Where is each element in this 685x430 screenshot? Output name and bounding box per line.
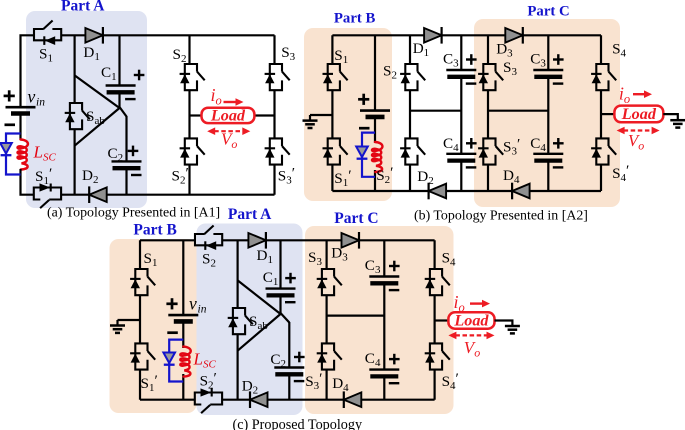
- wire b S1 column: [331, 35, 333, 191]
- wire b top rail 1: [332, 34, 424, 36]
- wire b S4 column: [600, 35, 602, 191]
- inductor LSC (c): [180, 347, 190, 377]
- ground (c right): [505, 326, 520, 333]
- load (b): [614, 105, 663, 123]
- wire c blue diode branch: [169, 340, 183, 382]
- svg-text:Part B: Part B: [133, 222, 176, 239]
- wire c battery column: [182, 240, 184, 399]
- wire b load wire: [601, 113, 614, 115]
- svg-text:D2: D2: [417, 168, 433, 187]
- region Part C (circuit c): [305, 226, 454, 414]
- wire c diagonal jog: [281, 313, 290, 323]
- wire c top rail 3: [266, 239, 342, 241]
- wire b S2 column: [409, 35, 411, 191]
- switch S4p (b): [591, 138, 616, 164]
- inductor LSC (b): [372, 142, 382, 172]
- wire a Sab column upper: [73, 35, 75, 103]
- capacitor C2 (a): [112, 146, 142, 175]
- inductor LSC (a): [18, 140, 28, 170]
- load (c): [448, 312, 494, 330]
- svg-text:Part B: Part B: [334, 11, 376, 27]
- switch S3 (b): [478, 64, 503, 90]
- switch S1p (a): [34, 183, 61, 208]
- wire b mid wire 2: [488, 110, 548, 112]
- load (a): [202, 106, 255, 124]
- capacitor C1 (c): [266, 273, 296, 302]
- switch S1p (c): [130, 343, 155, 369]
- wire a Sab column lower: [73, 129, 75, 195]
- switch S3p (c): [317, 343, 342, 369]
- ground (b right): [670, 120, 685, 127]
- wire c Sab column lower: [237, 334, 239, 400]
- wire a LSC to bottom: [21, 169, 34, 195]
- wire c diagonal upper: [238, 280, 281, 314]
- battery Vin (a): [4, 90, 36, 125]
- switch S3p (b): [478, 138, 503, 164]
- diode D3 (c): [342, 232, 360, 249]
- wire b C34a column: [460, 35, 462, 191]
- switch S2 (a): [180, 64, 205, 90]
- svg-text:in: in: [36, 97, 45, 109]
- switch S1 (c): [130, 269, 155, 295]
- wire c bottom rail 2: [222, 399, 250, 401]
- wire a diagonal upper: [75, 75, 120, 108]
- diode D2 (a): [89, 186, 107, 203]
- switch S2 (b): [400, 64, 425, 90]
- wire c bottom rail 4: [361, 399, 434, 401]
- wire c bottom rail 1: [140, 399, 195, 401]
- svg-text:(b) Topology Presented in [A2]: (b) Topology Presented in [A2]: [414, 209, 588, 224]
- wire a diagonal lower: [75, 108, 120, 146]
- label vo with dashed arrow (a): [207, 127, 250, 151]
- svg-text:Load: Load: [621, 105, 657, 123]
- label io with arrow (c): [454, 292, 491, 315]
- region Part A (circuit c): [197, 224, 303, 416]
- wire c right ground stem: [495, 321, 513, 327]
- wire c C2 column: [288, 322, 290, 400]
- wire a load right: [254, 114, 274, 116]
- capacitor C4 (b): [446, 138, 476, 167]
- svg-text:Part A: Part A: [61, 0, 105, 15]
- wire b bottom rail 3: [530, 190, 601, 192]
- svg-text:S4: S4: [442, 250, 456, 269]
- battery (b): [358, 94, 390, 129]
- svg-text:in: in: [198, 304, 207, 316]
- switch S4 (b): [591, 64, 616, 90]
- wire b top rail 2: [442, 34, 506, 36]
- svg-text:S2: S2: [383, 63, 397, 82]
- wire a C1 column: [118, 35, 120, 108]
- wire b bottom rail 2: [446, 190, 512, 192]
- wire c ground tap: [118, 320, 141, 326]
- wire a C2 column: [125, 116, 127, 195]
- wire c load wire: [435, 319, 449, 321]
- diode D1 (a): [85, 27, 103, 44]
- switch S2p (a): [180, 138, 205, 164]
- switch S2p (c): [195, 388, 222, 413]
- wire c bottom rail 3: [268, 399, 344, 401]
- wire a bottom rail left: [61, 194, 89, 196]
- capacitor C1 (a): [106, 70, 145, 99]
- switch S2 (c): [195, 226, 222, 251]
- region Part B (circuit b): [304, 28, 392, 201]
- svg-text:D1: D1: [413, 40, 429, 59]
- region Part B (circuit c): [110, 239, 197, 413]
- wire a top rail left: [61, 34, 85, 36]
- wire a top rail: [103, 34, 275, 36]
- svg-text:C4: C4: [443, 135, 459, 154]
- switch S4p (c): [425, 343, 450, 369]
- switch S1 (b): [323, 64, 348, 90]
- label vo with dashed arrow (b): [617, 127, 660, 153]
- wire a left rail: [21, 35, 35, 107]
- wire a S3 column: [273, 35, 275, 194]
- wire b mid wire 1: [410, 110, 461, 112]
- capacitor C4b (b): [533, 138, 563, 167]
- switch S3 (a): [265, 64, 290, 90]
- label io with arrow (b): [619, 84, 652, 107]
- diode D4 (b): [512, 183, 530, 200]
- wire b S3 column: [487, 35, 489, 191]
- svg-text:io: io: [619, 84, 630, 107]
- wire b C34b column: [547, 35, 549, 191]
- wire c diagonal lower: [238, 314, 281, 351]
- svg-text:C3: C3: [443, 51, 459, 70]
- wire c top rail 1: [140, 239, 195, 241]
- wire c S4 column: [434, 240, 436, 399]
- capacitor C4 (c): [369, 354, 399, 383]
- svg-text:S2′: S2′: [172, 165, 189, 187]
- diode D4 (c): [344, 391, 362, 408]
- svg-text:S3: S3: [281, 44, 295, 63]
- switch S1 (a): [34, 21, 61, 46]
- diode D1 (c): [248, 232, 266, 249]
- wire b battery column: [374, 35, 376, 191]
- region Part C (circuit b): [474, 19, 620, 207]
- wire c C34 column: [383, 240, 385, 399]
- svg-text:Vo: Vo: [628, 131, 644, 153]
- capacitor C3 (c): [369, 261, 399, 290]
- svg-text:Part A: Part A: [228, 206, 272, 223]
- wire c S3 column: [326, 240, 328, 399]
- svg-text:S4: S4: [612, 41, 626, 60]
- wire c Sab column upper: [237, 240, 239, 308]
- wire c mid wire: [327, 315, 385, 317]
- wire a S2 column: [188, 35, 190, 194]
- diode D2 (b): [429, 183, 447, 200]
- region Part A (circuit a): [26, 11, 147, 208]
- wire b blue diode branch: [362, 133, 375, 177]
- wire a battery to LSC node: [19, 113, 21, 140]
- wire a load left: [190, 114, 202, 116]
- ground (c left): [110, 326, 125, 333]
- ground (b left): [303, 121, 318, 128]
- svg-text:Part C: Part C: [527, 3, 569, 19]
- wire c C1 column: [279, 240, 281, 314]
- wire b right ground stem: [663, 114, 678, 120]
- switch S2p (b): [400, 138, 425, 164]
- wire a diagonal jog: [120, 107, 127, 117]
- svg-text:(c) Proposed Topology: (c) Proposed Topology: [233, 417, 363, 430]
- capacitor C3b (b): [533, 54, 563, 83]
- wire a blue diode branch: [6, 134, 21, 175]
- diode D3 (b): [505, 27, 523, 44]
- svg-text:v: v: [189, 294, 197, 314]
- switch Sab (c): [228, 308, 253, 334]
- diode blue snubber (c): [163, 353, 175, 365]
- label vo with dashed arrow (c): [448, 332, 494, 360]
- wire b ground tap: [310, 115, 332, 121]
- capacitor C2 (c): [274, 352, 304, 381]
- svg-text:S4′: S4′: [612, 162, 629, 184]
- switch Sab (a): [65, 103, 90, 129]
- diode blue snubber (b): [356, 147, 368, 159]
- wire c top rail 4: [359, 239, 435, 241]
- diode D1 (b): [424, 27, 442, 44]
- capacitor C3 (b): [446, 54, 476, 83]
- svg-text:Vo: Vo: [464, 338, 480, 360]
- switch S3 (c): [317, 269, 342, 295]
- svg-text:S3′: S3′: [278, 165, 295, 187]
- svg-text:(a) Topology Presented in [A1]: (a) Topology Presented in [A1]: [47, 206, 220, 221]
- diode D2 (c): [250, 391, 268, 408]
- switch S1p (b): [323, 138, 348, 164]
- wire c S1 column: [139, 240, 141, 399]
- svg-text:io: io: [211, 85, 222, 108]
- svg-text:Vo: Vo: [221, 130, 237, 152]
- svg-text:Load: Load: [210, 106, 246, 124]
- wire a bottom rail: [107, 194, 275, 196]
- svg-text:io: io: [454, 292, 465, 315]
- svg-text:Part C: Part C: [334, 210, 378, 227]
- svg-text:S2: S2: [173, 46, 187, 65]
- wire b top rail 3: [523, 34, 601, 36]
- diode blue snubber (a): [0, 143, 12, 155]
- wire c top rail 2: [222, 239, 248, 241]
- switch S4 (c): [425, 269, 450, 295]
- wire b bottom rail 1: [332, 190, 428, 192]
- battery vin (c): [166, 298, 198, 333]
- svg-text:v: v: [28, 87, 36, 107]
- label io with arrow (a): [211, 85, 244, 108]
- switch S3p (a): [265, 138, 290, 164]
